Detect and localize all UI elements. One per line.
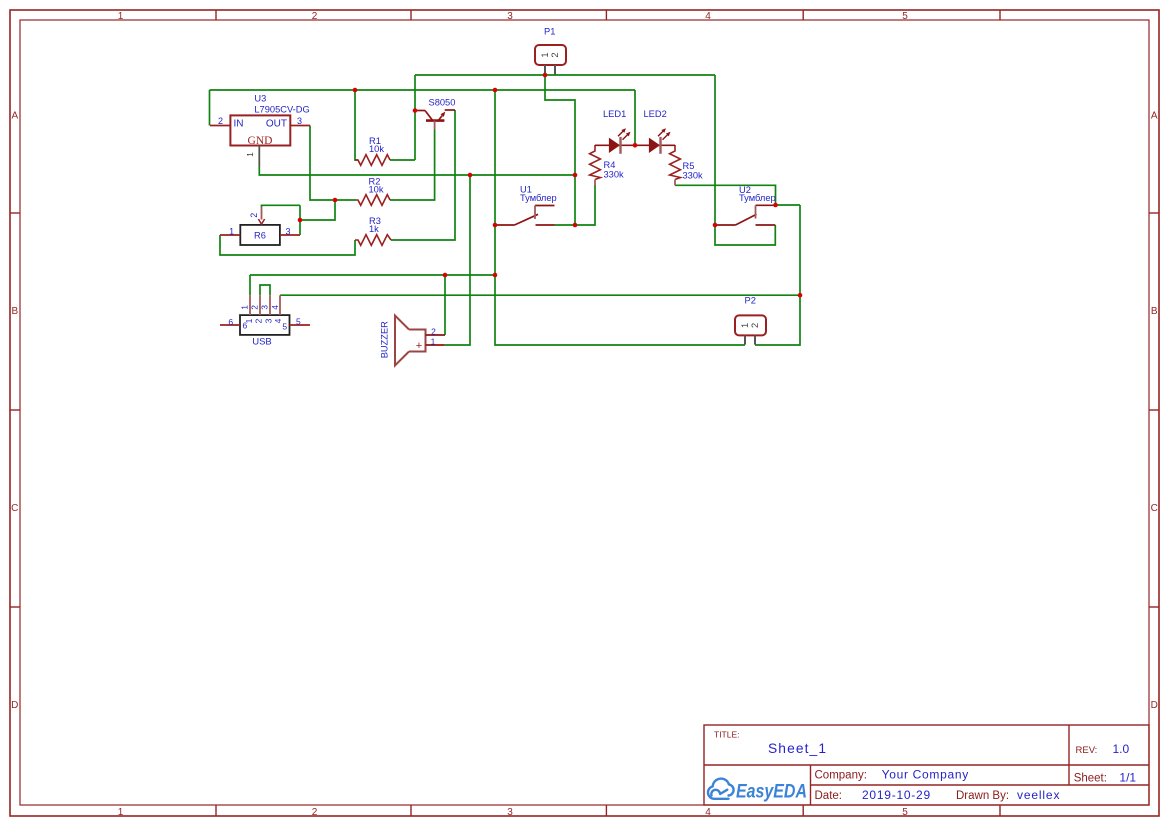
SCHEMATIC xyxy=(210,26,803,365)
junction P2 riser on net y295 xyxy=(798,293,803,298)
svg-text:REV:: REV: xyxy=(1076,745,1098,756)
junction R6 pin3 node xyxy=(298,218,303,223)
wire y275 horizontal USB pin1 xyxy=(250,274,495,276)
LED2 xyxy=(635,109,675,154)
junction U1 NC contact node xyxy=(573,223,578,228)
svg-text:1: 1 xyxy=(740,323,750,328)
svg-text:R4: R4 xyxy=(604,160,616,170)
resistor R3 xyxy=(355,235,391,246)
svg-text:C: C xyxy=(1151,503,1158,514)
svg-text:5: 5 xyxy=(282,322,287,332)
svg-text:Тумблер: Тумблер xyxy=(520,193,557,203)
svg-text:1/1: 1/1 xyxy=(1119,770,1136,784)
svg-text:1: 1 xyxy=(245,152,255,157)
regulator U3 L7905CV-DG xyxy=(210,94,310,167)
svg-text:1: 1 xyxy=(118,807,124,818)
svg-text:2: 2 xyxy=(312,11,318,22)
svg-text:+: + xyxy=(416,340,422,352)
toggle switch U2 xyxy=(715,185,776,225)
svg-text:S8050: S8050 xyxy=(429,97,456,107)
svg-text:D: D xyxy=(11,700,18,711)
resistor R1 xyxy=(355,155,390,166)
svg-text:2: 2 xyxy=(249,213,259,218)
svg-text:LED2: LED2 xyxy=(644,109,667,119)
svg-text:2: 2 xyxy=(249,305,259,310)
wire x495 main vertical xyxy=(495,90,745,345)
junction x495 riser on net y275 xyxy=(493,273,498,278)
wire R3 right riser to transistor collector xyxy=(391,110,455,240)
EasyEDA logo xyxy=(708,779,807,803)
svg-text:A: A xyxy=(1151,111,1158,122)
wire U2 top contact to x800 xyxy=(776,204,801,206)
wire R1 right link xyxy=(390,159,415,161)
potentiometer R6 xyxy=(220,207,300,245)
svg-text:2: 2 xyxy=(750,323,760,328)
wire x635 LED junction riser xyxy=(634,90,636,145)
svg-text:1k: 1k xyxy=(369,224,379,234)
junction R2 left node xyxy=(333,198,338,203)
svg-text:R5: R5 xyxy=(683,161,695,171)
svg-text:2: 2 xyxy=(431,326,436,336)
svg-text:L7905CV-DG: L7905CV-DG xyxy=(254,104,309,114)
wire R3 left link to R6 pin1 xyxy=(220,235,355,255)
svg-text:3: 3 xyxy=(297,116,302,126)
svg-text:4: 4 xyxy=(705,807,711,818)
svg-text:1: 1 xyxy=(540,52,550,57)
junction R1 top on net y90 xyxy=(353,88,358,93)
junction x470 riser on GND net y175 xyxy=(468,173,473,178)
svg-text:3: 3 xyxy=(260,305,270,310)
buzzer BUZZER xyxy=(380,316,446,366)
junction U2 NO contact node xyxy=(773,203,778,208)
wire net VIN top horizontal y75 xyxy=(415,74,715,76)
connector P1 xyxy=(535,26,566,74)
svg-text:10k: 10k xyxy=(369,144,384,154)
svg-text:B: B xyxy=(1151,306,1158,317)
svg-text:LED1: LED1 xyxy=(603,109,626,119)
TITLE BLOCK xyxy=(704,725,1149,805)
svg-text:1.0: 1.0 xyxy=(1113,742,1130,756)
svg-text:Company:: Company: xyxy=(815,769,867,781)
LED1 xyxy=(595,109,635,154)
svg-text:1: 1 xyxy=(118,11,124,22)
svg-text:2: 2 xyxy=(312,807,318,818)
svg-text:6: 6 xyxy=(243,321,248,331)
wire U3 GND down xyxy=(259,167,575,176)
svg-text:OUT: OUT xyxy=(266,119,287,130)
wire node R2 to R6 link xyxy=(300,200,335,220)
svg-text:veellex: veellex xyxy=(1017,788,1060,802)
svg-text:B: B xyxy=(11,306,18,317)
svg-text:Date:: Date: xyxy=(815,790,843,802)
junction LED1-LED2 node xyxy=(633,143,638,148)
svg-text:U3: U3 xyxy=(254,94,266,104)
wire vertical x415 base riser xyxy=(414,75,416,160)
svg-text:P2: P2 xyxy=(745,295,756,305)
svg-text:2: 2 xyxy=(550,52,560,57)
svg-text:3: 3 xyxy=(507,11,513,22)
wire P2 pin2 to x800 vertical xyxy=(755,205,800,345)
svg-text:TITLE:: TITLE: xyxy=(714,730,740,740)
svg-text:5: 5 xyxy=(902,807,908,818)
svg-text:2: 2 xyxy=(218,116,223,126)
junction buzzer pin2 on net y275 xyxy=(443,273,448,278)
junction U2 common pin xyxy=(713,223,718,228)
svg-text:Your Company: Your Company xyxy=(882,767,969,781)
wire R1 left riser xyxy=(355,90,358,160)
wire x470 GND riser xyxy=(445,175,470,345)
svg-text:BUZZER: BUZZER xyxy=(380,321,390,358)
svg-text:5: 5 xyxy=(296,317,301,327)
svg-text:R6: R6 xyxy=(254,230,266,240)
junction U1 common pin xyxy=(493,223,498,228)
svg-text:2019-10-29: 2019-10-29 xyxy=(862,788,931,802)
wire R5 bottom to U2 xyxy=(675,185,776,205)
svg-text:4: 4 xyxy=(705,11,711,22)
svg-text:1: 1 xyxy=(239,305,249,310)
junction x495 riser on net y90 xyxy=(493,88,498,93)
wire R6 pin2 bridge xyxy=(262,205,301,207)
svg-text:D: D xyxy=(1151,700,1158,711)
svg-text:GND: GND xyxy=(248,135,273,147)
svg-text:10k: 10k xyxy=(369,184,384,194)
resistor R5 bottom pin xyxy=(674,180,676,186)
junction x575 riser on GND net y175 xyxy=(573,173,578,178)
svg-text:USB: USB xyxy=(252,336,272,347)
wire P1 pin1 riser xyxy=(545,75,575,225)
resistor R5 vertical xyxy=(670,145,681,180)
wire U2 NC loop xyxy=(715,225,775,245)
svg-text:5: 5 xyxy=(902,11,908,22)
svg-text:1: 1 xyxy=(229,226,234,236)
svg-text:330k: 330k xyxy=(604,169,625,179)
svg-text:3: 3 xyxy=(264,318,274,323)
svg-text:6: 6 xyxy=(228,317,233,327)
wire USB pin2-pin3 bridge xyxy=(260,285,270,295)
wire U3 OUT to R2 xyxy=(310,126,356,201)
resistor R4 bottom pin xyxy=(594,180,596,186)
toggle switch U1 xyxy=(495,184,557,225)
svg-text:1: 1 xyxy=(431,336,436,346)
transistor Q1 S8050 xyxy=(415,97,455,129)
svg-text:Тумблер: Тумблер xyxy=(739,193,776,203)
junction Q1 base xyxy=(413,108,418,113)
USB connector xyxy=(220,295,310,347)
wire R4 bottom lead green xyxy=(594,185,596,188)
svg-text:P1: P1 xyxy=(544,26,555,36)
resistor R4 vertical xyxy=(590,145,601,180)
wire R2 right to transistor emitter xyxy=(390,130,435,201)
svg-text:330k: 330k xyxy=(683,171,704,181)
svg-text:3: 3 xyxy=(507,807,513,818)
svg-text:4: 4 xyxy=(270,305,280,310)
wire R6 pin3 riser xyxy=(299,205,301,235)
junction P1 pin1 on net y75 xyxy=(543,73,548,78)
wire net y90 horizontal xyxy=(210,89,636,91)
wire buzzer pin2 riser xyxy=(444,275,446,335)
wire U3 pin2 riser xyxy=(209,90,211,126)
svg-text:Drawn By:: Drawn By: xyxy=(956,790,1009,802)
svg-text:IN: IN xyxy=(234,119,244,130)
resistor R2 xyxy=(356,195,390,206)
svg-text:3: 3 xyxy=(285,226,290,236)
wire x715 U2 riser xyxy=(714,75,716,225)
svg-text:A: A xyxy=(11,111,18,122)
svg-text:EasyEDA: EasyEDA xyxy=(736,782,807,803)
connector P2 xyxy=(735,295,766,344)
svg-text:Sheet:: Sheet: xyxy=(1074,772,1107,784)
svg-text:Sheet_1: Sheet_1 xyxy=(768,741,827,756)
wire USB pin1 riser xyxy=(249,275,251,295)
wire U1 NC to R4 bottom xyxy=(555,186,596,226)
svg-text:2: 2 xyxy=(254,318,264,323)
svg-text:C: C xyxy=(11,503,18,514)
wire USB pin4 to P2 y295 xyxy=(280,294,800,296)
